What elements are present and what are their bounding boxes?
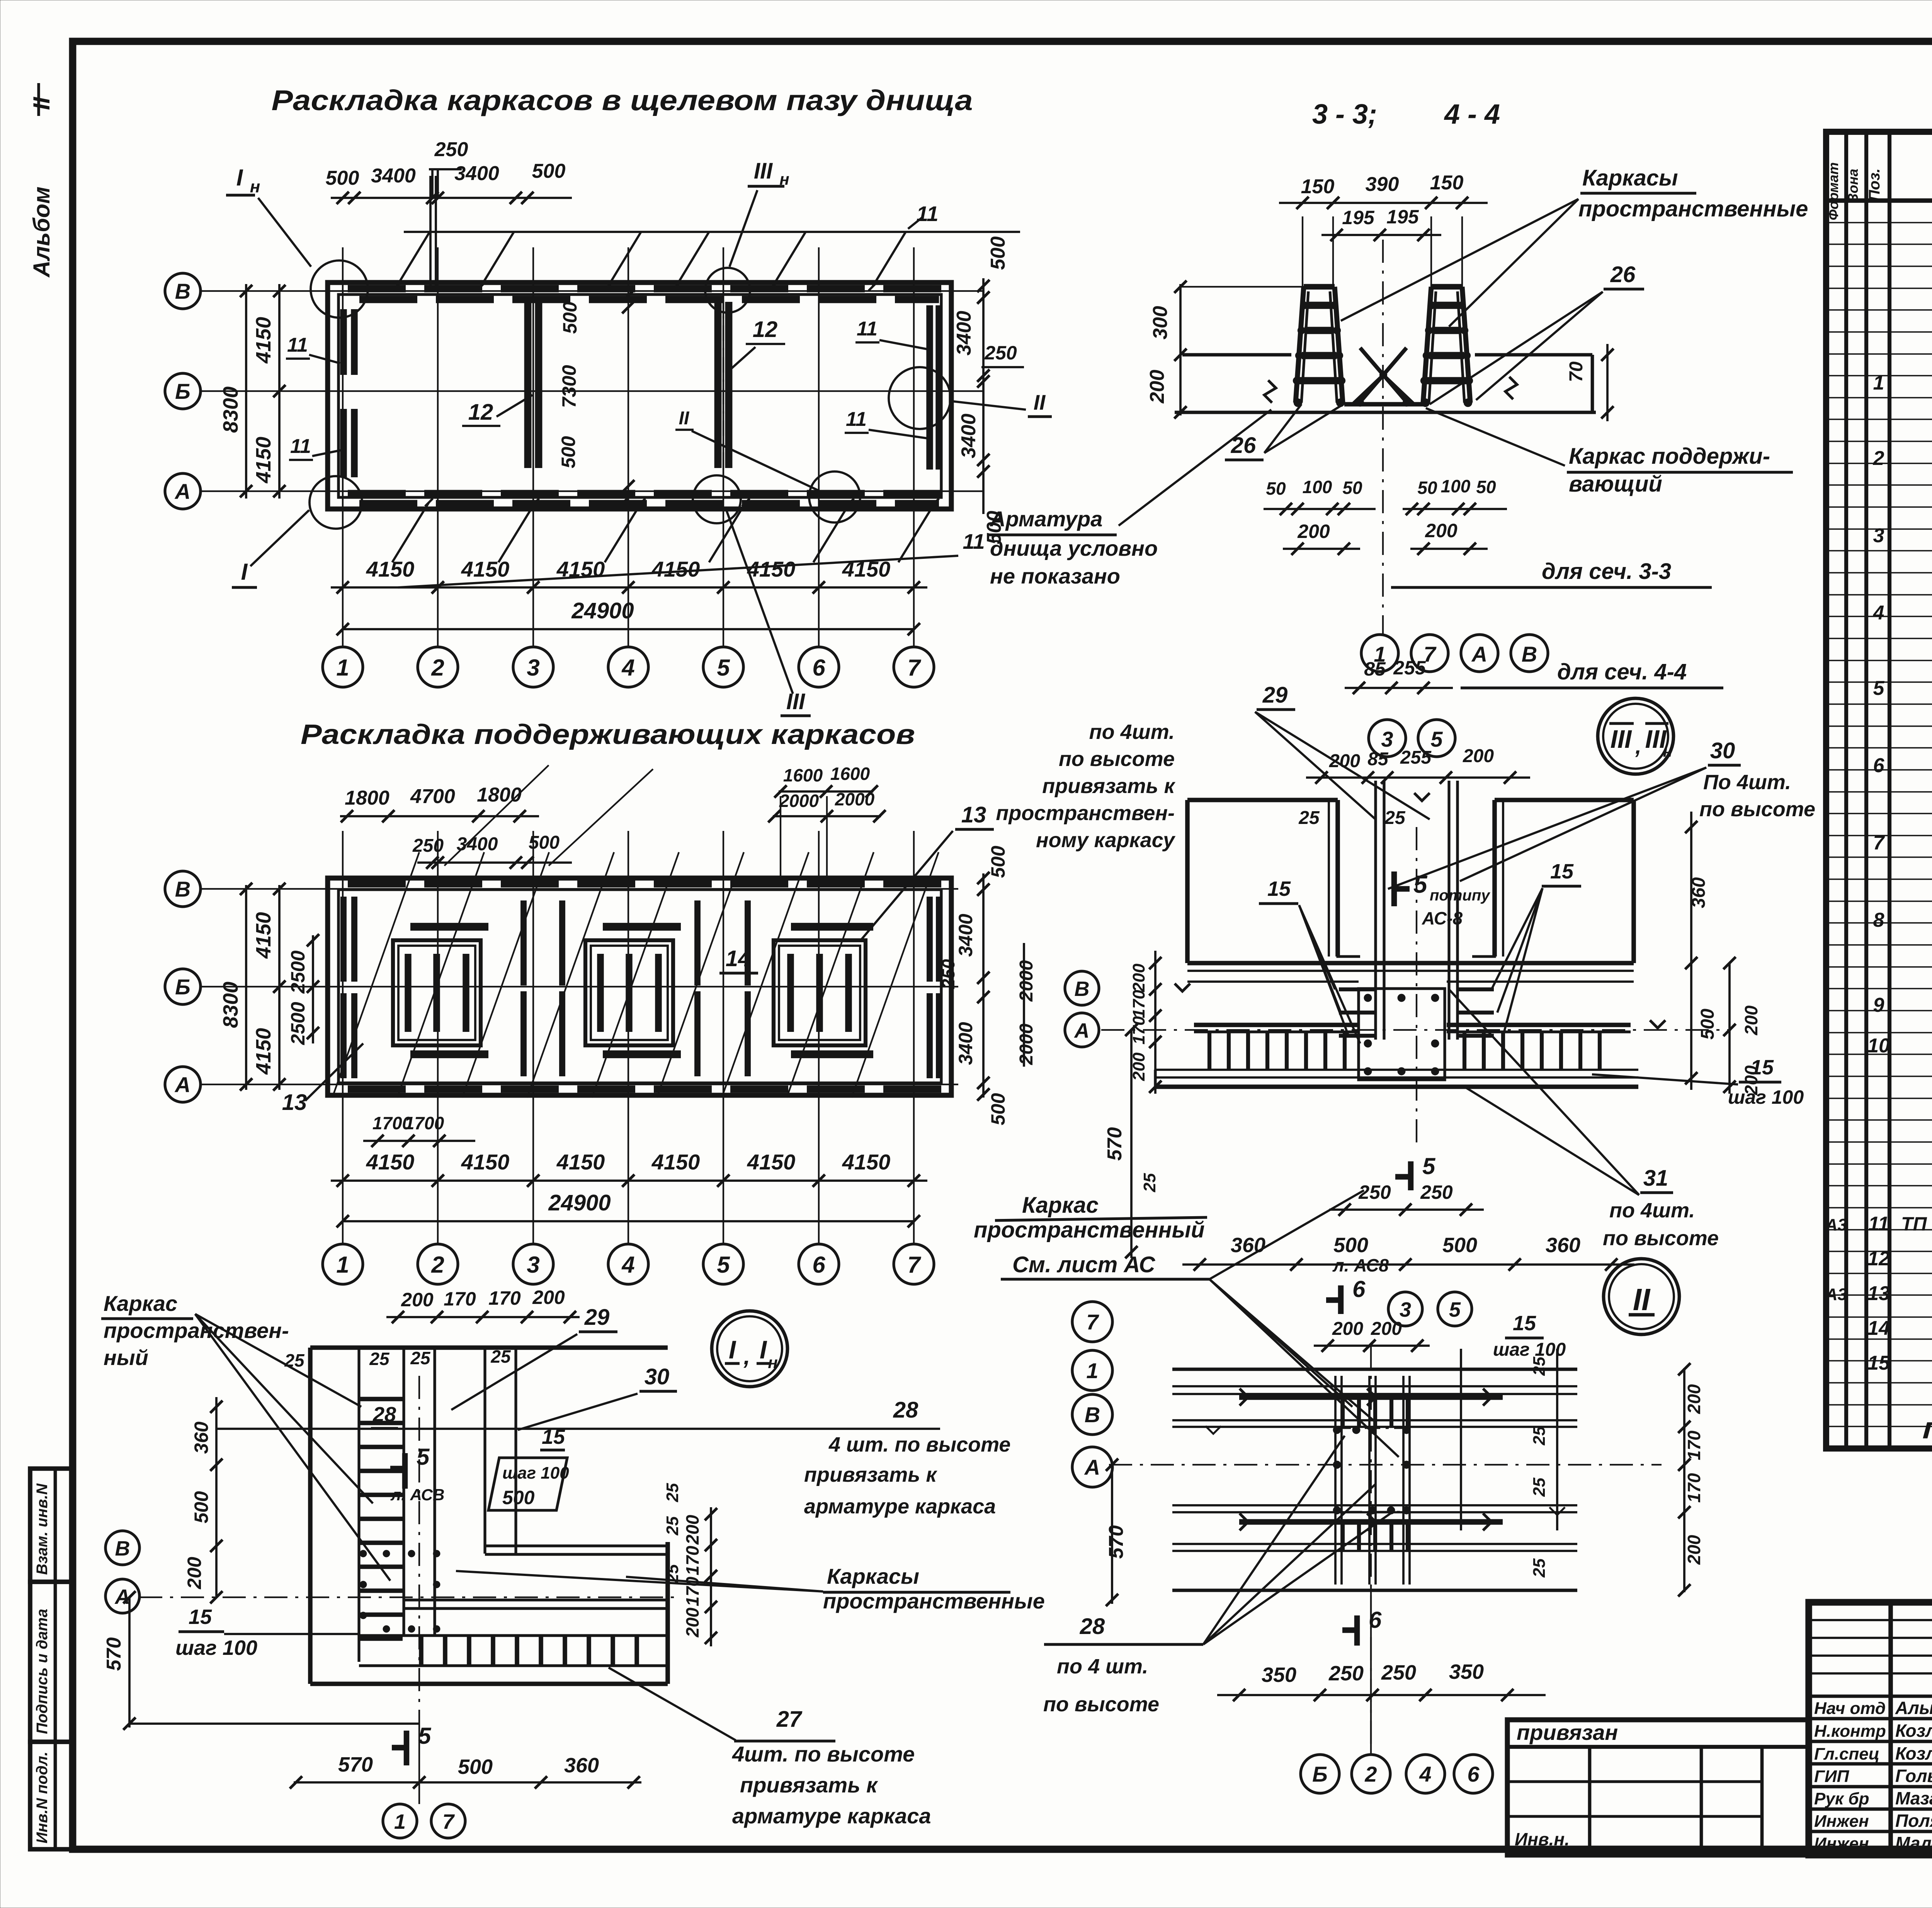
svg-text:50: 50 <box>1417 478 1437 498</box>
svg-text:2: 2 <box>431 655 444 681</box>
svg-text:пространственные: пространственные <box>823 1589 1045 1613</box>
svg-text:200: 200 <box>682 1515 702 1545</box>
svg-text:29: 29 <box>584 1305 610 1330</box>
svg-text:200: 200 <box>682 1607 702 1637</box>
svg-text:200: 200 <box>532 1287 565 1308</box>
svg-text:200: 200 <box>1329 751 1360 771</box>
section flag 5 upper <box>402 1453 408 1489</box>
svg-text:Каркасы: Каркасы <box>827 1564 919 1588</box>
svg-text:3400: 3400 <box>457 834 498 854</box>
svg-text:28: 28 <box>893 1397 918 1423</box>
svg-text:11: 11 <box>287 334 308 356</box>
svg-text:6: 6 <box>1873 754 1885 777</box>
sequence circles 1 7 А В for section 3-3 <box>1361 635 1398 672</box>
svg-text:пространственные: пространственные <box>1578 196 1808 221</box>
title block outer frame <box>1809 1602 1932 1855</box>
corner detail axis circles 1 7 bottom <box>383 1804 417 1838</box>
svg-text:4150: 4150 <box>556 557 605 581</box>
plan 1 bottom wall rebar (pos.11) dashes <box>348 490 943 497</box>
svg-text:1: 1 <box>1873 372 1884 394</box>
svg-text:200: 200 <box>1425 520 1458 541</box>
svg-text:I: I <box>236 165 243 191</box>
svg-text:Б: Б <box>1312 1762 1328 1786</box>
svg-text:11: 11 <box>1868 1213 1889 1235</box>
svg-text:500: 500 <box>987 846 1009 878</box>
svg-text:350: 350 <box>1449 1660 1484 1683</box>
svg-text:200: 200 <box>1332 1319 1363 1339</box>
svg-text:2: 2 <box>1873 447 1884 470</box>
svg-text:250: 250 <box>1358 1181 1391 1203</box>
svg-text:Формат: Формат <box>1825 162 1841 220</box>
svg-text:4 шт. по высоте: 4 шт. по высоте <box>828 1433 1010 1456</box>
svg-text:3: 3 <box>1873 524 1884 547</box>
svg-text:н: н <box>250 177 260 196</box>
plan 2 wall rebar vertical bars <box>340 897 347 982</box>
svg-text:4150: 4150 <box>842 1150 891 1174</box>
plan 1 top dimension row 500/3400/3400/500 <box>331 197 572 199</box>
plan 2 axis circles 1-7 <box>323 1244 363 1284</box>
svg-text:днища условно: днища условно <box>990 536 1158 560</box>
plan 2 dims 250/3400/500 <box>417 861 572 864</box>
svg-text:4150: 4150 <box>252 317 275 364</box>
svg-text:Б: Б <box>175 379 190 403</box>
svg-text:25: 25 <box>369 1349 390 1369</box>
svg-text:пространствен-: пространствен- <box>104 1318 289 1343</box>
svg-text:А: А <box>114 1585 130 1608</box>
svg-text:шаг 100: шаг 100 <box>1728 1086 1804 1108</box>
svg-text:200: 200 <box>1463 746 1494 766</box>
svg-text:,: , <box>1635 734 1641 758</box>
section flag 6 (X-detail) lower <box>1354 1615 1360 1646</box>
svg-text:по высоте: по высоте <box>1699 798 1815 821</box>
svg-text:Нач отд: Нач отд <box>1814 1699 1886 1718</box>
T-detail section flag 5 потипу АС-8 <box>1391 871 1397 906</box>
section 3-3 floor slab outline <box>1182 353 1291 357</box>
svg-text:Каркас поддержи-: Каркас поддержи- <box>1569 444 1770 469</box>
svg-text:Гл.спец: Гл.спец <box>1814 1745 1879 1763</box>
svg-text:По 4шт.: По 4шт. <box>1703 771 1791 794</box>
section flag 5 (T-detail) <box>1408 1161 1414 1190</box>
svg-text:I: I <box>760 1335 767 1364</box>
plan 2 overall dimension 24900 <box>343 1220 914 1222</box>
svg-text:15: 15 <box>1750 1056 1774 1079</box>
svg-text:2000: 2000 <box>835 789 875 809</box>
svg-text:25: 25 <box>1530 1357 1549 1376</box>
svg-text:7: 7 <box>1873 832 1885 854</box>
svg-text:5: 5 <box>418 1723 432 1749</box>
T-detail slot cage lines <box>1374 781 1377 1040</box>
svg-text:13: 13 <box>961 802 986 827</box>
svg-text:Козловичер: Козловичер <box>1895 1721 1932 1741</box>
svg-text:Альбом: Альбом <box>29 187 54 278</box>
svg-text:28: 28 <box>372 1403 396 1426</box>
svg-text:250: 250 <box>1381 1661 1416 1684</box>
svg-text:л. АС8: л. АС8 <box>1332 1255 1389 1275</box>
corner detail axis circles В А <box>105 1531 139 1565</box>
svg-text:15: 15 <box>1550 860 1574 883</box>
T-detail right wall block <box>1495 798 1634 802</box>
plan 1 axis circles 1-7 <box>323 647 363 687</box>
svg-text:6: 6 <box>1467 1762 1480 1786</box>
specification table frame <box>1826 132 1932 1448</box>
svg-text:5: 5 <box>417 1444 430 1470</box>
svg-text:4: 4 <box>621 1252 634 1278</box>
svg-text:А: А <box>174 1072 190 1097</box>
T-detail flange rebar lines and ladder rungs <box>1194 1023 1359 1027</box>
plan 1 tank outline (outer wall) <box>328 283 951 509</box>
svg-text:25: 25 <box>1384 808 1406 828</box>
svg-text:пространствен-: пространствен- <box>996 802 1175 825</box>
svg-text:9: 9 <box>1873 994 1884 1016</box>
svg-text:Каркас: Каркас <box>1022 1193 1099 1218</box>
svg-text:170: 170 <box>1129 990 1148 1018</box>
svg-text:4150: 4150 <box>461 557 510 581</box>
left margin stamp box: Инв.N подл. <box>30 1742 73 1849</box>
svg-text:500: 500 <box>458 1755 493 1779</box>
svg-text:500: 500 <box>987 1093 1009 1125</box>
T-detail frame square with dots <box>1359 989 1445 1080</box>
svg-text:24900: 24900 <box>571 598 634 623</box>
svg-text:4 - 4: 4 - 4 <box>1444 99 1500 130</box>
svg-text:4700: 4700 <box>410 785 455 808</box>
plan 1 tank outline (inner wall) <box>338 294 941 497</box>
svg-text:70: 70 <box>1566 361 1587 382</box>
svg-text:6: 6 <box>1369 1607 1382 1633</box>
svg-text:6: 6 <box>812 655 825 681</box>
svg-text:Взам. инв.N: Взам. инв.N <box>34 1483 51 1575</box>
svg-text:3400: 3400 <box>371 165 416 187</box>
plan 1 slot marker lines at axis 2 <box>429 176 432 288</box>
svg-text:шаг 100: шаг 100 <box>175 1636 257 1660</box>
svg-text:200: 200 <box>1129 963 1148 992</box>
svg-text:привязать к: привязать к <box>1042 774 1175 798</box>
svg-text:4150: 4150 <box>366 557 415 581</box>
svg-text:по 4 шт.: по 4 шт. <box>1057 1655 1148 1678</box>
plan 2 left dims 8300/4150/2500 <box>245 885 247 1090</box>
svg-text:3: 3 <box>1381 727 1393 751</box>
svg-text:А: А <box>1471 642 1487 666</box>
svg-text:350: 350 <box>1262 1663 1296 1687</box>
svg-text:II: II <box>29 97 54 110</box>
svg-text:Козлввичер: Козлввичер <box>1895 1743 1932 1763</box>
svg-text:I: I <box>729 1335 736 1364</box>
svg-text:30: 30 <box>645 1364 670 1389</box>
section caisson space-frame cross-section <box>1296 287 1343 403</box>
plan 1 bottom dimension row 4150 x6 <box>331 586 927 589</box>
svg-text:30: 30 <box>1710 738 1735 763</box>
specification table header row line <box>1826 198 1932 203</box>
svg-text:по 4шт.: по 4шт. <box>1609 1199 1695 1222</box>
plan 2 bottom dims 1700 1700 <box>363 1140 475 1142</box>
svg-text:11: 11 <box>963 529 985 553</box>
svg-text:3: 3 <box>527 1252 539 1278</box>
corner detail centerlines <box>418 1376 420 1728</box>
T-detail left dims 200/170/170/200 and 570 <box>1154 951 1156 1094</box>
svg-text:7: 7 <box>442 1810 455 1833</box>
svg-text:Полякова: Полякова <box>1895 1811 1932 1831</box>
svg-text:8300: 8300 <box>219 982 242 1028</box>
svg-text:24900: 24900 <box>548 1190 611 1215</box>
svg-text:7: 7 <box>907 655 921 681</box>
svg-text:25: 25 <box>1298 808 1320 828</box>
svg-text:2000: 2000 <box>779 791 819 811</box>
svg-text:2: 2 <box>1364 1762 1377 1786</box>
svg-text:5: 5 <box>1422 1153 1436 1179</box>
plan 1 node circle I (axis 1/А) <box>310 476 362 529</box>
corner detail dim 570 vertical <box>128 1597 131 1728</box>
svg-text:5: 5 <box>717 655 730 681</box>
svg-text:14: 14 <box>726 946 751 971</box>
привязан reference table <box>1507 1720 1809 1855</box>
svg-text:III: III <box>1610 725 1632 753</box>
svg-text:27: 27 <box>776 1707 803 1732</box>
svg-text:500: 500 <box>502 1487 535 1508</box>
svg-text:11: 11 <box>290 435 311 458</box>
corner detail bottom dims 570/500/360 <box>294 1781 641 1784</box>
svg-text:25: 25 <box>1530 1426 1549 1445</box>
svg-text:Гольдино: Гольдино <box>1895 1766 1932 1786</box>
svg-text:1: 1 <box>1086 1358 1098 1383</box>
sequence circles 3 5 (details) <box>1388 1292 1422 1326</box>
svg-text:3400: 3400 <box>955 914 976 957</box>
svg-text:100: 100 <box>1441 476 1471 496</box>
svg-text:А: А <box>174 479 190 504</box>
X-detail bottom dims 350/250/250/350 <box>1217 1694 1546 1696</box>
svg-text:255: 255 <box>1393 657 1426 679</box>
plan 1 row axis circles В Б А <box>165 273 201 309</box>
node circle II identifier <box>1604 1259 1679 1334</box>
svg-text:7: 7 <box>1086 1310 1099 1334</box>
left margin stamp box: Подпись и дата <box>30 1582 73 1742</box>
svg-text:А: А <box>1074 1019 1090 1042</box>
X-detail frame square with dots (dash-dot) <box>1335 1428 1410 1512</box>
svg-text:4150: 4150 <box>252 912 275 959</box>
section slab break marks <box>1264 380 1276 403</box>
T-detail top dims 200 85 255 200 <box>1306 776 1530 779</box>
svg-text:вающий: вающий <box>1569 471 1662 497</box>
plan 1 bottom leaders pos.11 <box>398 556 958 587</box>
section top dimensions 150/390/150 <box>1279 202 1488 204</box>
T-detail cage rungs in slot <box>1339 987 1375 991</box>
svg-text:50: 50 <box>1476 477 1496 497</box>
svg-text:25: 25 <box>1140 1173 1159 1192</box>
svg-text:ГИП: ГИП <box>1814 1767 1850 1786</box>
svg-text:500: 500 <box>190 1491 212 1523</box>
node circle I,Iн identifier <box>712 1311 787 1387</box>
svg-text:4150: 4150 <box>842 557 891 581</box>
plan 1 overall dimension 24900 <box>343 628 914 630</box>
svg-text:Н.контр: Н.контр <box>1814 1722 1886 1741</box>
section dimensions 195/195 <box>1321 234 1441 236</box>
svg-text:15: 15 <box>189 1605 212 1629</box>
svg-text:1: 1 <box>336 655 349 681</box>
T-detail right dims 360/500 and 200/200 <box>1690 812 1692 1090</box>
X-detail bottom axis circles Б 2 4 6 <box>1301 1755 1339 1793</box>
svg-text:1800: 1800 <box>345 787 389 809</box>
section bottom dims 50 100 50 / 50 100 50 <box>1264 508 1376 510</box>
svg-text:300: 300 <box>1149 306 1172 340</box>
svg-text:11: 11 <box>857 318 878 340</box>
svg-text:1800: 1800 <box>477 784 522 806</box>
X-detail cage vertical lines <box>1334 1376 1337 1585</box>
svg-text:50: 50 <box>1266 478 1286 499</box>
svg-text:н: н <box>1663 743 1672 760</box>
plan 2 top wall rebar dashes (pos.13) <box>348 880 943 888</box>
svg-text:85: 85 <box>1364 658 1386 680</box>
section left dims 300/200 <box>1179 284 1182 415</box>
X-detail rebar end arrow marks <box>1240 1389 1248 1397</box>
svg-text:250: 250 <box>1420 1181 1453 1203</box>
T-detail left wall block <box>1187 798 1338 802</box>
svg-text:4: 4 <box>1419 1762 1431 1786</box>
plan 1 left dimension chains 8300/4150 <box>245 284 247 499</box>
svg-text:200: 200 <box>1371 1319 1402 1339</box>
corner detail rebar dots <box>360 1551 366 1557</box>
X-detail break marks <box>1206 1426 1221 1434</box>
svg-text:2500: 2500 <box>287 950 309 994</box>
svg-text:арматуре каркаса: арматуре каркаса <box>804 1495 996 1518</box>
svg-text:1: 1 <box>336 1252 349 1278</box>
plan 1 partition rebar at axis 5 (pos.12) <box>714 302 722 468</box>
svg-text:11: 11 <box>916 202 938 226</box>
svg-text:4: 4 <box>1873 602 1884 624</box>
node circle Ш Шн identifier <box>1598 698 1673 774</box>
svg-text:Арматура: Арматура <box>989 507 1102 531</box>
svg-text:500: 500 <box>559 301 581 334</box>
svg-text:,: , <box>743 1343 750 1369</box>
X-detail axis circles 7 1 В А <box>1072 1302 1112 1342</box>
corner detail parallelogram note шаг 100 / 500 <box>488 1458 567 1510</box>
svg-text:II: II <box>679 408 690 429</box>
svg-text:3400: 3400 <box>953 311 975 356</box>
svg-text:5: 5 <box>1449 1298 1461 1321</box>
svg-text:200: 200 <box>184 1557 205 1590</box>
plan 1 leader line row for pos.11 top <box>404 231 1020 233</box>
svg-text:3400: 3400 <box>957 414 980 458</box>
svg-text:Альтшуллер: Альтшуллер <box>1895 1698 1932 1718</box>
svg-text:12: 12 <box>753 317 778 342</box>
specification table column lines <box>1844 132 1848 1448</box>
svg-text:Каркас: Каркас <box>104 1291 177 1316</box>
plan 1 node circle II (axis 6/А) <box>809 471 860 523</box>
svg-text:570: 570 <box>1105 1525 1128 1559</box>
specification table thin row rules <box>1826 222 1932 223</box>
svg-text:500: 500 <box>987 237 1009 270</box>
svg-text:250: 250 <box>984 342 1017 364</box>
svg-text:500: 500 <box>529 832 560 853</box>
svg-text:390: 390 <box>1366 173 1399 196</box>
svg-text:200: 200 <box>1146 370 1168 404</box>
svg-text:200: 200 <box>1684 1384 1704 1414</box>
corner detail ladder rungs vertical wall <box>360 1397 403 1401</box>
svg-text:Инв.N подл.: Инв.N подл. <box>34 1751 51 1843</box>
T-detail axis circles В А <box>1065 971 1099 1005</box>
svg-text:570: 570 <box>103 1637 125 1671</box>
section caisson space-frame cross-section <box>1423 287 1470 403</box>
svg-text:200: 200 <box>1741 1005 1761 1035</box>
svg-text:25: 25 <box>663 1483 682 1502</box>
svg-text:II: II <box>1633 1282 1651 1317</box>
svg-text:Малохово: Малохово <box>1895 1833 1932 1853</box>
svg-text:по высоте: по высоте <box>1043 1693 1159 1716</box>
plan 2 top dims 1800/4700/1800 <box>340 815 539 817</box>
svg-text:500: 500 <box>1442 1234 1477 1257</box>
svg-text:для сеч. 3-3: для сеч. 3-3 <box>1542 559 1671 584</box>
corner detail left dim chain 360/500/200 <box>215 1397 218 1598</box>
T-detail slot corner marks <box>1338 935 1360 957</box>
svg-text:13: 13 <box>1867 1282 1890 1305</box>
svg-text:Раскладка поддерживающих кар: Раскладка поддерживающих каркасов <box>301 719 915 750</box>
svg-text:5: 5 <box>1873 677 1885 700</box>
plan 1 node circle II (axis 7/Б) <box>889 367 951 429</box>
svg-text:А: А <box>1084 1455 1100 1479</box>
svg-text:6: 6 <box>812 1252 825 1278</box>
svg-text:4шт. по высоте: 4шт. по высоте <box>732 1742 915 1766</box>
svg-text:Раскладка каркасов в щелевом: Раскладка каркасов в щелевом пазу днища <box>272 84 973 116</box>
plan 1 node circle III-н (axis 5/В) <box>705 268 750 313</box>
svg-text:В: В <box>1085 1402 1100 1427</box>
svg-text:II: II <box>1034 390 1046 414</box>
svg-text:500: 500 <box>1333 1234 1368 1257</box>
svg-text:8300: 8300 <box>219 386 242 433</box>
svg-text:В: В <box>1075 977 1090 1001</box>
svg-text:л. АСВ: л. АСВ <box>390 1486 444 1504</box>
svg-text:25: 25 <box>410 1348 431 1368</box>
T-detail bottom dims 360/500/500/360 <box>1182 1263 1634 1266</box>
dims 85 255 for section 4-4 <box>1345 687 1453 689</box>
svg-text:4: 4 <box>621 655 634 681</box>
svg-text:15: 15 <box>1513 1312 1536 1335</box>
svg-text:11: 11 <box>846 408 867 431</box>
plan 2 supporting-frame boxes (pos.14) <box>393 940 481 1045</box>
plan 2 diagonal leader fan (pos.13) <box>332 852 419 1098</box>
svg-text:25: 25 <box>1530 1477 1549 1497</box>
svg-text:Б: Б <box>175 975 190 999</box>
plan 1 top wall rebar (pos.11) dashes <box>348 285 943 293</box>
svg-text:3400: 3400 <box>955 1022 976 1065</box>
svg-text:В: В <box>1522 642 1537 666</box>
svg-text:5: 5 <box>1430 727 1443 751</box>
svg-text:4150: 4150 <box>366 1150 415 1174</box>
svg-text:потипу: потипу <box>1430 887 1490 904</box>
svg-text:13: 13 <box>282 1090 307 1115</box>
sequence circles 3 5 for section 4-4 <box>1369 720 1406 757</box>
plan 1 node circle (axis 5/А) <box>693 475 741 523</box>
plan 2 bottom wall rebar dashes (pos.13) <box>348 1086 943 1093</box>
corner detail ladder rungs bottom wall <box>419 1637 423 1665</box>
svg-text:7300: 7300 <box>558 365 580 408</box>
plan 2 column axis lines <box>342 831 344 1244</box>
svg-text:арматуре каркаса: арматуре каркаса <box>732 1804 931 1828</box>
svg-text:170: 170 <box>444 1288 476 1310</box>
plan 2 row axis circles В Б А <box>165 871 201 907</box>
svg-text:100: 100 <box>1303 477 1332 497</box>
X-detail ladder rungs <box>1341 1397 1345 1427</box>
svg-text:4150: 4150 <box>651 557 700 581</box>
svg-text:III: III <box>786 689 806 714</box>
svg-text:50: 50 <box>1342 478 1362 498</box>
svg-text:Поз.: Поз. <box>1866 169 1883 201</box>
svg-text:360: 360 <box>1231 1234 1265 1257</box>
svg-text:В: В <box>175 877 190 901</box>
svg-text:4150: 4150 <box>651 1150 700 1174</box>
T-detail bottom dims 250 250 <box>1329 1208 1484 1211</box>
svg-text:500: 500 <box>532 160 566 182</box>
X-detail left dim 570 <box>1111 1465 1113 1604</box>
svg-text:привязать к: привязать к <box>740 1773 878 1797</box>
svg-text:по 4шт.: по 4шт. <box>1089 720 1175 744</box>
title block left thin rows <box>1809 1619 1932 1621</box>
